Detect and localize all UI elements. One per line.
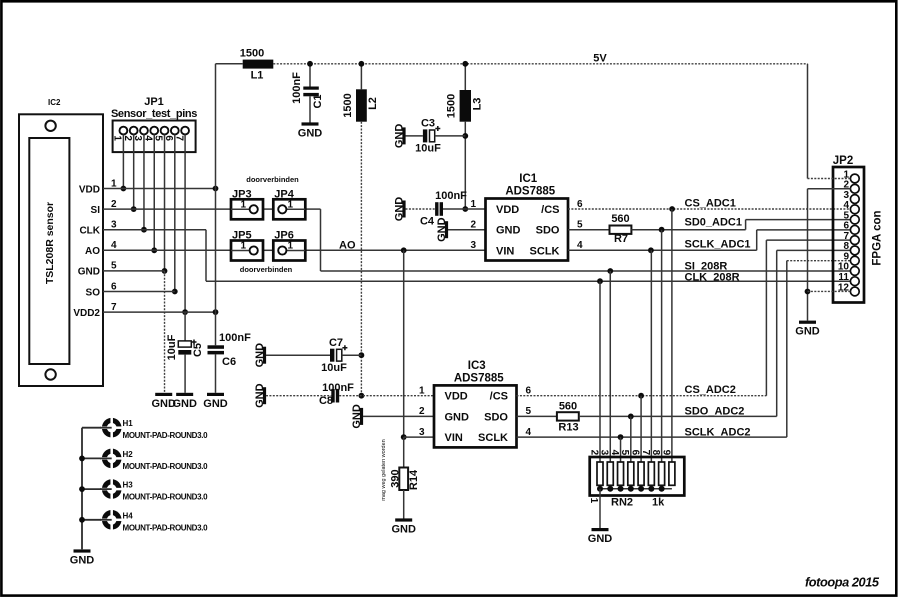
svg-text:MOUNT-PAD-ROUND3.0: MOUNT-PAD-ROUND3.0 bbox=[123, 523, 209, 532]
svg-text:MOUNT-PAD-ROUND3.0: MOUNT-PAD-ROUND3.0 bbox=[123, 462, 209, 471]
inductor L1 1500 bbox=[240, 48, 274, 82]
svg-text:GND: GND bbox=[78, 267, 100, 278]
wire SI row JP3-JP4 link bbox=[263, 208, 273, 210]
svg-text:SCLK_ADC1: SCLK_ADC1 bbox=[685, 239, 751, 251]
svg-text:390: 390 bbox=[390, 469, 402, 487]
adc IC1 ADS7885 bbox=[470, 173, 583, 261]
wire bend up to JP2 pin 5 bbox=[745, 220, 747, 230]
svg-text:SD0_ADC1: SD0_ADC1 bbox=[685, 217, 742, 229]
svg-text:10uF: 10uF bbox=[166, 334, 178, 360]
jumper JP4 bbox=[273, 189, 305, 220]
wire gnd to C7 bbox=[266, 354, 330, 356]
wire bend up to JP2 pin 9 bbox=[786, 261, 788, 437]
wire CLK_208R row to JP2 pin 11 bbox=[206, 280, 851, 282]
wire 5V rail down to JP2 pin 1 bbox=[807, 64, 809, 179]
ground (IC3 pin 2) bbox=[351, 404, 363, 429]
svg-text:C3: C3 bbox=[421, 118, 435, 130]
svg-text:560: 560 bbox=[611, 213, 629, 225]
wire RN2 pin 5 vertical bbox=[630, 416, 632, 462]
wire SCLK row to bend bbox=[517, 436, 787, 438]
svg-text:GND: GND bbox=[70, 555, 95, 567]
svg-text:C6: C6 bbox=[222, 356, 236, 368]
svg-text:/CS: /CS bbox=[490, 391, 508, 403]
inductor L2 1500 bbox=[342, 89, 379, 121]
wire C5 to ground bbox=[184, 355, 186, 393]
svg-text:4: 4 bbox=[609, 450, 620, 456]
svg-text:fotoopa 2015: fotoopa 2015 bbox=[805, 575, 880, 590]
svg-text:C4: C4 bbox=[420, 216, 435, 228]
wire CLK row (sensor pin 3), bend down at x=206 to CLK_208R bbox=[103, 229, 206, 231]
svg-text:GND: GND bbox=[254, 343, 266, 368]
jumper JP3 bbox=[231, 189, 263, 220]
ground (C3) bbox=[394, 124, 406, 149]
svg-text:3: 3 bbox=[419, 427, 425, 438]
svg-text:1: 1 bbox=[112, 135, 123, 141]
svg-text:GND: GND bbox=[394, 197, 406, 222]
svg-text:7: 7 bbox=[111, 302, 117, 313]
svg-text:L3: L3 bbox=[472, 98, 484, 111]
svg-text:doorverbinden: doorverbinden bbox=[246, 175, 299, 184]
capacitor C7 10uF electrolytic bbox=[321, 337, 347, 374]
svg-text:ADS7885: ADS7885 bbox=[454, 372, 504, 384]
svg-text:100nF: 100nF bbox=[322, 382, 354, 394]
svg-text:3: 3 bbox=[470, 240, 476, 251]
mount pad H3 bbox=[82, 478, 208, 501]
jumper JP6 bbox=[273, 230, 305, 261]
svg-text:SI: SI bbox=[91, 205, 101, 216]
wire C7 to L2 node bbox=[342, 354, 362, 356]
svg-text:FPGA con: FPGA con bbox=[872, 210, 884, 265]
wire RN2 pin 9 vertical bbox=[671, 209, 673, 462]
svg-text:VDD: VDD bbox=[445, 391, 468, 403]
svg-text:1500: 1500 bbox=[240, 48, 264, 60]
svg-text:100nF: 100nF bbox=[435, 190, 467, 202]
svg-text:1: 1 bbox=[288, 199, 294, 210]
wire mount pad ground bus bbox=[81, 428, 83, 550]
svg-text:R7: R7 bbox=[614, 233, 628, 245]
svg-text:GND: GND bbox=[445, 411, 470, 423]
wire SO row (sensor pin 6) bbox=[103, 291, 175, 293]
svg-text:5V: 5V bbox=[593, 53, 607, 65]
svg-text:GND: GND bbox=[588, 533, 613, 545]
wire R7 to bend, SD0_ADC1 bbox=[631, 229, 745, 231]
capacitor C8 100nF bbox=[319, 382, 354, 407]
wire to IC3 pin 3 bbox=[404, 436, 434, 438]
svg-text:1500: 1500 bbox=[446, 94, 458, 118]
wire rail to L2 bbox=[360, 64, 362, 90]
svg-text:1: 1 bbox=[288, 241, 294, 252]
wire RN2 pin 1 to ground bbox=[599, 489, 601, 528]
svg-text:IC1: IC1 bbox=[519, 173, 538, 185]
connector JP1 Sensor_test_pins bbox=[111, 96, 197, 152]
svg-text:1k: 1k bbox=[652, 497, 665, 509]
svg-text:6: 6 bbox=[526, 386, 532, 397]
svg-text:L2: L2 bbox=[367, 97, 379, 110]
wire SI row (sensor pin 2 to JP3) bbox=[103, 208, 231, 210]
wire AO / VIN net to IC1 pin 3 bbox=[305, 249, 485, 251]
ground (C4) bbox=[394, 197, 406, 222]
wire AO vertical down to IC3 VIN bbox=[403, 250, 405, 437]
svg-text:H3: H3 bbox=[123, 481, 134, 490]
svg-text:SCLK_ADC2: SCLK_ADC2 bbox=[685, 427, 751, 439]
wire JP2 pin 12 stub bbox=[808, 290, 851, 292]
svg-text:AO: AO bbox=[85, 246, 100, 257]
capacitor C3 10uF electrolytic bbox=[415, 118, 441, 155]
wire AO row JP5-JP6 link bbox=[263, 249, 273, 251]
wire GND net down to ground bbox=[164, 271, 166, 393]
capacitor C5 10uF electrolytic bbox=[166, 334, 204, 360]
wire AO row (sensor pin 4 to JP5) bbox=[103, 249, 231, 251]
svg-text:H2: H2 bbox=[123, 450, 134, 459]
wire JP2 pin 2 to GND vertical bbox=[808, 188, 851, 190]
ground (C8) bbox=[254, 383, 266, 408]
ground (C5) bbox=[172, 393, 197, 410]
wire rail to C1 bbox=[309, 64, 311, 87]
svg-text:560: 560 bbox=[559, 401, 577, 413]
svg-text:10uF: 10uF bbox=[415, 143, 441, 155]
svg-text:100nF: 100nF bbox=[291, 72, 303, 104]
wire JP1 pin 3 bbox=[143, 135, 145, 230]
wire RN2 pin 8 vertical bbox=[661, 230, 663, 462]
wire /CS row CS_ADC1 to JP2 pin 4 bbox=[568, 208, 851, 210]
wire JP1 pin 4 bbox=[153, 135, 155, 251]
svg-text:GND: GND bbox=[496, 225, 521, 237]
svg-text:5: 5 bbox=[526, 406, 532, 417]
svg-text:R14: R14 bbox=[408, 469, 420, 490]
ground (R14) bbox=[391, 518, 416, 535]
wire JP1 pin 5 bbox=[164, 135, 166, 271]
svg-text:Sensor_test_pins: Sensor_test_pins bbox=[111, 108, 197, 120]
wire VIN node down to R14 bbox=[403, 437, 405, 467]
adc IC3 ADS7885 bbox=[419, 360, 532, 448]
svg-text:5: 5 bbox=[111, 261, 117, 272]
mount pad H1 bbox=[82, 417, 208, 440]
ground (C7) bbox=[254, 343, 266, 368]
ground (C6) bbox=[203, 393, 228, 410]
svg-text:IC2: IC2 bbox=[48, 98, 61, 107]
resistor R13 560 bbox=[557, 401, 579, 434]
svg-text:10uF: 10uF bbox=[321, 362, 347, 374]
wire SCLK row to bend bbox=[568, 249, 757, 251]
svg-text:CS_ADC1: CS_ADC1 bbox=[685, 198, 736, 210]
svg-text:JP1: JP1 bbox=[144, 96, 164, 108]
svg-text:H4: H4 bbox=[123, 511, 134, 520]
ground (IC1 pin 2) bbox=[436, 217, 448, 242]
wire JP1 pin 2 bbox=[133, 135, 135, 210]
sensor IC2 TSL208R bbox=[19, 98, 117, 386]
svg-text:MOUNT-PAD-ROUND3.0: MOUNT-PAD-ROUND3.0 bbox=[123, 493, 209, 502]
svg-text:JP2: JP2 bbox=[833, 155, 853, 167]
svg-text:RN2: RN2 bbox=[611, 497, 633, 509]
wire SDO row to R13 bbox=[517, 415, 557, 417]
wire CS_ADC2 row to bend bbox=[517, 395, 767, 397]
svg-text:4: 4 bbox=[111, 240, 117, 251]
svg-text:7: 7 bbox=[640, 450, 651, 456]
svg-text:SDO: SDO bbox=[484, 411, 508, 423]
wire RN2 pin 2 vertical bbox=[599, 281, 601, 462]
svg-text:6: 6 bbox=[629, 450, 640, 456]
wire JP1 pin 1 bbox=[122, 135, 124, 189]
svg-text:1: 1 bbox=[111, 178, 117, 189]
svg-text:GND: GND bbox=[351, 404, 363, 429]
svg-text:3: 3 bbox=[111, 220, 117, 231]
wire RN2 pin 6 vertical bbox=[640, 396, 642, 462]
svg-text:GND: GND bbox=[172, 398, 197, 410]
wire gnd to IC3 pin 2 bbox=[363, 415, 434, 417]
svg-text:SCLK: SCLK bbox=[478, 432, 508, 444]
wire gnd to C3 bbox=[406, 135, 423, 137]
svg-text:GND: GND bbox=[254, 383, 266, 408]
svg-text:5: 5 bbox=[619, 450, 630, 456]
svg-text:1500: 1500 bbox=[342, 93, 354, 117]
wire 5V rail top bbox=[216, 63, 243, 65]
svg-text:SDO_ADC2: SDO_ADC2 bbox=[685, 406, 745, 418]
svg-text:SCLK: SCLK bbox=[530, 245, 560, 257]
svg-text:GND: GND bbox=[795, 326, 820, 338]
svg-text:GND: GND bbox=[391, 524, 416, 536]
wire VDD2 row (sensor pin 7) bbox=[103, 311, 216, 313]
svg-text:1: 1 bbox=[419, 386, 425, 397]
connector JP2 FPGA con bbox=[833, 155, 884, 303]
svg-text:GND: GND bbox=[298, 128, 323, 140]
wire bend up to JP2 pin 6 bbox=[756, 230, 758, 250]
svg-text:GND: GND bbox=[436, 217, 448, 242]
svg-text:GND: GND bbox=[203, 398, 228, 410]
svg-text:TSL208R sensor: TSL208R sensor bbox=[44, 202, 56, 284]
svg-text:VIN: VIN bbox=[445, 432, 463, 444]
wire 5V vertical (rail to VDD/VDD2/C6) bbox=[215, 64, 217, 346]
wire JP1 pin 6 bbox=[174, 135, 176, 292]
svg-text:VDD: VDD bbox=[496, 204, 519, 216]
ground (mount pads) bbox=[70, 549, 95, 566]
svg-text:C5: C5 bbox=[192, 343, 204, 357]
resistor R7 560 bbox=[610, 213, 632, 245]
mount pad H4 bbox=[82, 509, 208, 532]
resistor network RN2 1k bbox=[588, 450, 685, 509]
wire C1 to ground bbox=[309, 96, 311, 122]
svg-text:4: 4 bbox=[526, 427, 532, 438]
wire RN2 pin 3 vertical bbox=[609, 271, 611, 462]
wire rail to L3 bbox=[464, 64, 466, 90]
wire L3 down to IC1 VDD bbox=[464, 122, 466, 209]
wire C4 to IC1 pin 1 bbox=[443, 208, 486, 210]
wire R13 to bend, SDO_ADC2 bbox=[579, 415, 777, 417]
resistor R14 390 bbox=[390, 468, 421, 491]
wire RN2 pin 4 vertical bbox=[620, 437, 622, 462]
wire JP1 pin 7 bbox=[184, 135, 186, 313]
svg-text:1: 1 bbox=[588, 498, 599, 504]
wire C3 to L3 node bbox=[435, 135, 466, 137]
svg-text:1: 1 bbox=[241, 241, 247, 252]
wire gnd to C4 bbox=[406, 208, 436, 210]
wire VDD row (sensor pin 1) bbox=[103, 188, 216, 190]
svg-text:MOUNT-PAD-ROUND3.0: MOUNT-PAD-ROUND3.0 bbox=[123, 431, 209, 440]
svg-text:VDD: VDD bbox=[79, 184, 100, 195]
svg-text:IC3: IC3 bbox=[468, 360, 486, 372]
svg-text:2: 2 bbox=[111, 199, 117, 210]
ground (C1) bbox=[298, 122, 323, 139]
svg-text:R13: R13 bbox=[558, 422, 578, 434]
svg-text:/CS: /CS bbox=[541, 204, 559, 216]
svg-text:SO: SO bbox=[86, 287, 101, 298]
svg-text:L1: L1 bbox=[251, 70, 264, 82]
svg-text:C7: C7 bbox=[329, 337, 343, 349]
wire GND row (sensor pin 5) bbox=[103, 270, 165, 272]
mount pad H2 bbox=[82, 448, 208, 471]
svg-text:VDD2: VDD2 bbox=[73, 308, 100, 319]
svg-text:9: 9 bbox=[660, 450, 671, 456]
svg-text:SDO: SDO bbox=[536, 225, 560, 237]
svg-text:1: 1 bbox=[470, 199, 476, 210]
svg-text:CS_ADC2: CS_ADC2 bbox=[685, 384, 736, 396]
wire bend up to JP2 pin 7 bbox=[765, 240, 767, 396]
wire bend up to JP2 pin 8 bbox=[776, 250, 778, 416]
svg-text:1: 1 bbox=[241, 199, 247, 210]
wire R14 to ground bbox=[403, 490, 405, 519]
svg-text:CLK: CLK bbox=[79, 226, 100, 237]
svg-text:3: 3 bbox=[599, 450, 610, 456]
svg-text:AO: AO bbox=[339, 239, 356, 251]
wire SDO row to R7 bbox=[568, 229, 610, 231]
wire VDD2 down to C5 bbox=[184, 312, 186, 341]
svg-text:doorverbinden: doorverbinden bbox=[240, 265, 293, 274]
ground (RN2) bbox=[588, 528, 613, 545]
svg-text:100nF: 100nF bbox=[219, 332, 251, 344]
svg-text:C8: C8 bbox=[319, 395, 333, 407]
svg-text:ADS7885: ADS7885 bbox=[505, 186, 555, 198]
wire SI row JP4 exit, bend down at x=319.5 to SI_208R bbox=[305, 208, 320, 210]
jumper JP5 bbox=[231, 230, 263, 261]
wire L2 down to C7/C8 node bbox=[360, 122, 362, 396]
inductor L3 1500 bbox=[446, 90, 484, 122]
capacitor C4 100nF bbox=[420, 190, 467, 228]
svg-text:8: 8 bbox=[650, 450, 661, 456]
ground (JP2) bbox=[795, 321, 820, 338]
svg-text:VIN: VIN bbox=[496, 245, 514, 257]
svg-text:mag weg gelaten worden: mag weg gelaten worden bbox=[381, 439, 387, 500]
svg-text:C1: C1 bbox=[312, 94, 324, 108]
capacitor C6 100nF bbox=[208, 332, 252, 368]
wire RN2 pin 7 vertical bbox=[650, 250, 652, 462]
wire gnd to IC1 pin 2 bbox=[448, 229, 486, 231]
svg-text:2: 2 bbox=[470, 220, 476, 231]
svg-text:2: 2 bbox=[419, 406, 425, 417]
capacitor C1 100nF bbox=[291, 72, 324, 109]
svg-text:4: 4 bbox=[577, 240, 583, 251]
svg-text:2: 2 bbox=[588, 450, 599, 456]
svg-text:5: 5 bbox=[577, 220, 583, 231]
svg-text:H1: H1 bbox=[123, 419, 134, 428]
wire C8 to IC3 pin 1 bbox=[339, 395, 434, 397]
wire gnd to C8 bbox=[266, 395, 331, 397]
svg-text:6: 6 bbox=[111, 281, 117, 292]
ground (sensor GND) bbox=[151, 393, 176, 410]
wire SI_208R row to JP2 pin 10 bbox=[321, 270, 851, 272]
svg-text:6: 6 bbox=[577, 199, 583, 210]
svg-text:GND: GND bbox=[394, 124, 406, 149]
svg-text:CLK_208R: CLK_208R bbox=[685, 272, 740, 284]
wire C6 to ground bbox=[215, 354, 217, 392]
